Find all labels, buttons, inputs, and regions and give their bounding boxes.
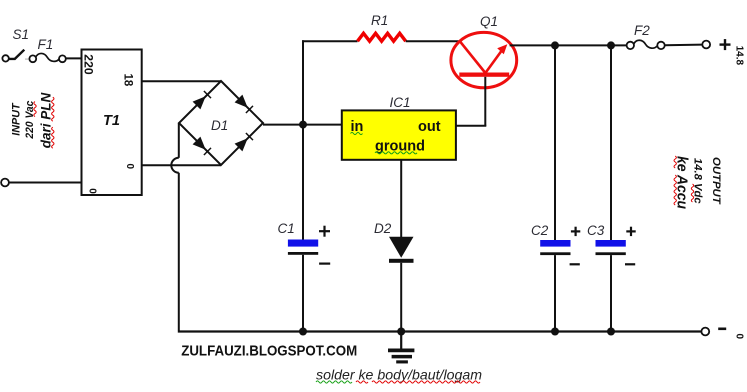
- node C1 bottom: [299, 328, 307, 336]
- svg-text:C3: C3: [587, 223, 605, 238]
- minus C2: [570, 263, 580, 265]
- node C3 top: [607, 41, 615, 49]
- resistor R1: [358, 33, 406, 41]
- transformer T1: [82, 50, 142, 196]
- capacitor C2: [540, 45, 570, 330]
- svg-text:18: 18: [122, 74, 134, 87]
- switch S1: [9, 50, 29, 59]
- wire IC1 out to Q1: [455, 125, 486, 127]
- ground symbol: [388, 332, 414, 362]
- svg-text:R1: R1: [371, 13, 388, 28]
- text solder ke body/baut/logam: [316, 367, 482, 384]
- svg-text:ZULFAUZI.BLOGSPOT.COM: ZULFAUZI.BLOGSPOT.COM: [181, 343, 357, 360]
- plus C1: [319, 226, 330, 237]
- output terminal -: [701, 328, 709, 336]
- output terminal +: [702, 41, 710, 49]
- wire Q1 emitter down to out: [484, 77, 486, 126]
- label 0 rotated bottom right: [734, 334, 745, 340]
- bridge rectifier D1: [179, 81, 263, 165]
- wire bridge right to IC1 in: [263, 124, 343, 126]
- svg-text:14.8: 14.8: [734, 46, 745, 66]
- minus C1: [319, 263, 330, 265]
- diode D1 top-right: [235, 95, 248, 108]
- svg-text:solder ke body/baut/logam: solder ke body/baut/logam: [316, 367, 482, 383]
- pin label 0 bottom: [87, 188, 98, 194]
- wire bridge left vertex down with hop: [171, 123, 178, 331]
- wire IC1 ground down: [400, 160, 402, 238]
- node junction at x303 y124.6: [299, 121, 307, 129]
- minus C3: [625, 263, 635, 265]
- svg-text:F1: F1: [38, 37, 54, 52]
- diode D2: [389, 237, 414, 331]
- svg-text:T1: T1: [103, 113, 120, 129]
- capacitor C1: [288, 240, 318, 331]
- plus C2: [571, 227, 580, 236]
- svg-text:220 Vac: 220 Vac: [24, 101, 36, 140]
- svg-text:IC1: IC1: [390, 95, 411, 110]
- pin label 18: [122, 74, 134, 87]
- wire F2 to output +: [665, 44, 703, 47]
- svg-text:220: 220: [82, 54, 94, 74]
- svg-text:dari PLN: dari PLN: [38, 92, 53, 148]
- svg-text:C1: C1: [278, 221, 295, 236]
- red OUTPUT annotation: [674, 156, 722, 209]
- svg-text:S1: S1: [13, 27, 30, 42]
- svg-text:0: 0: [87, 188, 98, 194]
- transistor Q1: [451, 32, 517, 87]
- label 14.8 rotated: [734, 46, 745, 66]
- svg-text:out: out: [418, 119, 441, 135]
- diode D1 top-left: [193, 96, 206, 109]
- node D2 bottom: [397, 328, 405, 336]
- input terminal bottom-left: [1, 179, 9, 187]
- red INPUT annotation: [10, 92, 54, 148]
- node C3 bottom: [607, 328, 615, 336]
- diode D1 bottom-right: [235, 138, 248, 151]
- svg-text:F2: F2: [634, 23, 650, 38]
- minus sign output: [718, 327, 726, 330]
- wire to T1 bottom: [9, 182, 82, 184]
- wire top rail right: [510, 44, 627, 46]
- svg-text:D2: D2: [374, 221, 392, 236]
- plus C3: [626, 227, 635, 236]
- svg-text:0: 0: [734, 334, 745, 340]
- fuse F1: [29, 53, 65, 62]
- svg-text:OUTPUT: OUTPUT: [710, 157, 722, 205]
- wire vertical x303 top rail to C1: [302, 40, 304, 243]
- node C2 bottom: [551, 328, 559, 336]
- diode D1 bottom-left: [193, 137, 206, 150]
- svg-text:INPUT: INPUT: [10, 102, 22, 136]
- wire R1 to Q1: [406, 40, 460, 42]
- capacitor C3: [596, 45, 626, 330]
- fuse F2: [627, 40, 665, 49]
- regulator IC1: [342, 110, 456, 159]
- input terminal top-left: [2, 55, 8, 61]
- wire bottom rail: [178, 330, 702, 332]
- wire T1 18 to bridge top: [142, 80, 221, 82]
- wire top rail left: [302, 40, 358, 42]
- wire F1 to T1: [66, 57, 82, 59]
- svg-text:0: 0: [124, 164, 135, 170]
- node C2 top: [551, 41, 559, 49]
- wire T1 0 to bridge bottom: [142, 164, 221, 166]
- svg-text:C2: C2: [531, 223, 549, 238]
- svg-text:D1: D1: [211, 118, 228, 133]
- svg-text:Q1: Q1: [480, 14, 498, 29]
- pin label 220: [82, 54, 94, 74]
- plus sign output: [720, 39, 731, 50]
- pin label 0 right: [124, 164, 135, 170]
